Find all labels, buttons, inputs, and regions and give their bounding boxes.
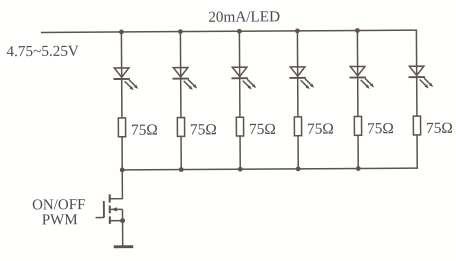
node J8 bottom rail junction	[238, 167, 243, 172]
wire D1 cathode to R1	[121, 79, 123, 118]
wire bottom rail to Q1 drain	[110, 170, 123, 199]
wire D2 cathode to R2	[180, 79, 182, 118]
wire Q1 body to source junction	[121, 209, 123, 220]
wire R2 to bottom rail	[180, 136, 182, 169]
svg-text:4.75~5.25V: 4.75~5.25V	[6, 43, 78, 60]
resistor R4	[294, 117, 301, 136]
wire branch 4 anode	[296, 31, 298, 67]
wire branch 1 anode	[120, 32, 122, 68]
wire Q1 body lead with arrow	[111, 208, 122, 210]
wire R3 to bottom rail	[239, 136, 241, 169]
wire Q1 gate lead	[96, 217, 104, 219]
node J1 top rail junction	[119, 30, 124, 35]
resistor R2	[177, 118, 184, 137]
resistor R3	[236, 117, 243, 136]
svg-text:PWM: PWM	[42, 212, 78, 228]
node J4 top rail junction	[295, 28, 300, 33]
wire branch 6 anode	[415, 29, 417, 65]
wire Q1 source lead	[110, 220, 122, 222]
wire R5 to bottom rail	[357, 135, 359, 168]
resistor R6	[413, 116, 420, 135]
svg-text:20mA/LED: 20mA/LED	[208, 8, 280, 25]
ground	[114, 245, 133, 248]
node J2 top rail junction	[178, 29, 183, 34]
LED D5	[349, 66, 374, 89]
LED D6	[408, 66, 433, 89]
svg-text:75Ω: 75Ω	[131, 122, 158, 139]
LED D4	[289, 67, 314, 90]
wire D4 cathode to R4	[297, 78, 299, 117]
resistor R5	[354, 116, 361, 135]
node J3 top rail junction	[237, 29, 242, 34]
svg-text:75Ω: 75Ω	[307, 121, 334, 138]
wire branch 3 anode	[238, 31, 240, 67]
node J6 bottom rail junction	[120, 168, 125, 173]
wire D5 cathode to R5	[357, 78, 359, 117]
svg-text:75Ω: 75Ω	[367, 120, 394, 137]
svg-text:ON/OFF: ON/OFF	[32, 197, 85, 213]
wire R1 to bottom rail	[121, 137, 123, 170]
node Q1 source junction	[120, 218, 125, 223]
node J7 bottom rail junction	[179, 167, 184, 172]
wire branch 2 anode	[179, 32, 181, 68]
wire D3 cathode to R3	[239, 78, 241, 117]
transistor Q1 NMOS channel segments	[109, 194, 111, 224]
resistor R1	[118, 118, 125, 137]
node J5 top rail junction	[355, 28, 360, 33]
wire bottom cathode rail	[122, 168, 417, 170]
transistor Q1 body arrow	[111, 207, 117, 211]
node J9 bottom rail junction	[296, 166, 301, 171]
svg-text:75Ω: 75Ω	[426, 120, 453, 137]
transistor Q1 gate bar	[103, 201, 105, 218]
wire top supply rail	[41, 30, 416, 32]
wire branch 5 anode	[356, 31, 358, 67]
svg-text:75Ω: 75Ω	[190, 121, 217, 138]
wire source to ground	[122, 221, 124, 246]
LED D2	[172, 67, 197, 90]
svg-text:75Ω: 75Ω	[249, 121, 276, 138]
LED D3	[231, 67, 256, 90]
node J10 bottom rail junction	[356, 166, 361, 171]
LED D1	[113, 68, 138, 91]
wire R4 to bottom rail	[297, 136, 299, 169]
wire R6 to bottom rail	[416, 135, 418, 169]
wire D6 cathode to R6	[416, 77, 418, 116]
